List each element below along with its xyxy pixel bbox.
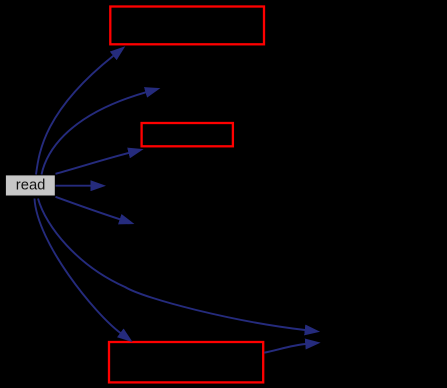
- edge 6: read -> bottom box: [35, 199, 121, 334]
- svg-text:read: read: [16, 177, 46, 193]
- edge 3: read -> middle box: [56, 153, 129, 174]
- node: top red box: [110, 7, 264, 45]
- edge 1: read -> top box: [36, 56, 113, 175]
- node: read (gray, current): [6, 175, 55, 195]
- edge 2: read -> hidden node: [42, 92, 146, 174]
- node: middle red box: [142, 123, 233, 146]
- node: bottom red box: [109, 342, 263, 382]
- edge 7: read -> far right hidden node: [38, 199, 305, 331]
- edge 4: read -> hidden node (horizontal): [56, 185, 91, 187]
- edge 8: bottom box -> far right hidden node: [264, 344, 305, 353]
- edge 5: read -> hidden node (diagonal): [56, 197, 121, 220]
